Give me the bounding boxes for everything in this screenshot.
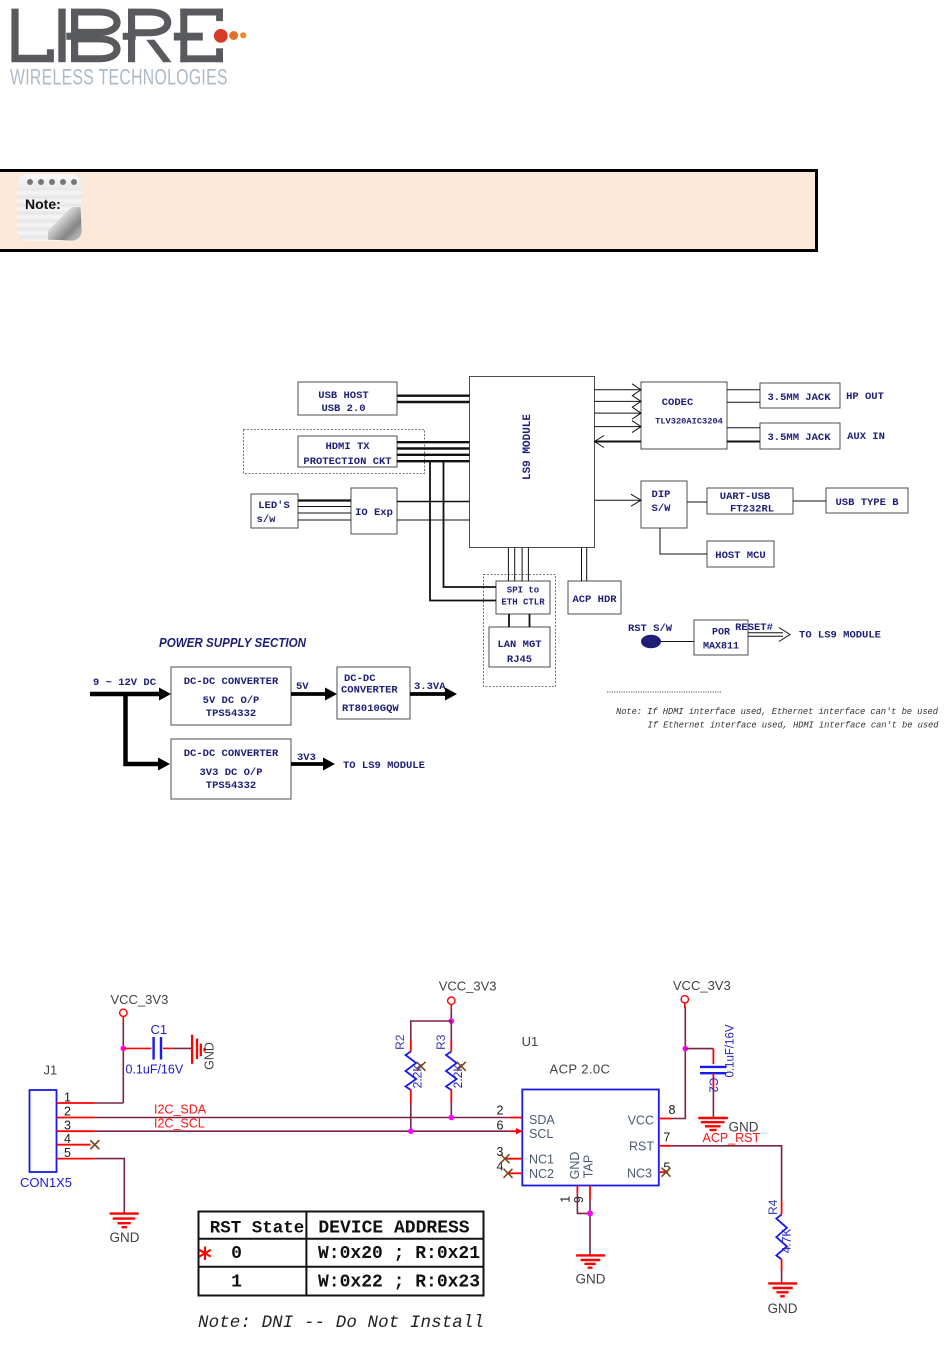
net I2C_SCL wire [95, 1130, 510, 1132]
svg-text:NC2: NC2 [529, 1167, 554, 1181]
svg-text:SCL: SCL [529, 1127, 553, 1141]
svg-text:0: 0 [231, 1244, 242, 1264]
logo LIBRE [0, 0, 260, 95]
svg-text:I2C_SCL: I2C_SCL [154, 1117, 205, 1131]
J1 pin stubs [57, 1103, 95, 1159]
svg-text:3.3VA: 3.3VA [414, 681, 446, 693]
box 3.5MM JACK HP [760, 383, 840, 408]
wire IO Exp to LS9 (2 lines) [397, 501, 470, 503]
note icon notepad [17, 174, 82, 241]
svg-text:RT8010GQW: RT8010GQW [342, 703, 399, 715]
power symbol VCC_3V3 (R2 R3) [439, 979, 497, 1005]
svg-text:VCC_3V3: VCC_3V3 [111, 992, 169, 1007]
svg-text:UART-USB: UART-USB [720, 491, 771, 503]
box USB HOST [298, 382, 397, 415]
resistor R2 [393, 1034, 424, 1103]
svg-text:AUX IN: AUX IN [847, 431, 885, 443]
svg-text:0.1uF/16V: 0.1uF/16V [724, 1024, 736, 1077]
wire C1 to ground [174, 1047, 192, 1049]
table RST State / DEVICE ADDRESS [199, 1212, 484, 1296]
box 3.5MM JACK AUX [760, 423, 840, 449]
wire UART to USB TYPE B [793, 500, 826, 502]
wire VCC pin8 up [671, 1007, 685, 1119]
svg-text:6: 6 [497, 1119, 504, 1133]
box DC-DC 5V [171, 667, 291, 725]
wire to R2 top [411, 1021, 452, 1040]
svg-text:IO Exp: IO Exp [355, 507, 393, 519]
arrow POR RESET# out [748, 628, 790, 642]
svg-text:Note: DNI -- Do Not Install: Note: DNI -- Do Not Install [198, 1313, 484, 1333]
wire R2 bottom to SCL [410, 1103, 412, 1131]
wire R4 to ground [781, 1271, 783, 1283]
svg-text:7: 7 [663, 1131, 670, 1145]
node junction R3-SDA [449, 1115, 455, 1121]
svg-text:LAN MGT: LAN MGT [497, 639, 541, 651]
dashed box ethernet [484, 575, 556, 687]
logo letter B [71, 9, 78, 63]
svg-text:0.1uF/16V: 0.1uF/16V [126, 1063, 184, 1077]
pin 3 NC1 stub [505, 1158, 522, 1160]
pin 8 VCC stub [659, 1118, 671, 1120]
resistor R3 [434, 1034, 465, 1103]
wire R3 bottom to SDA [450, 1103, 452, 1118]
svg-text:5V DC O/P: 5V DC O/P [203, 695, 260, 707]
box LS9 MODULE [470, 377, 595, 548]
svg-text:3.5MM JACK: 3.5MM JACK [767, 392, 831, 404]
box HDMI TX PROTECTION CKT [298, 436, 397, 467]
node junction C2 tap [683, 1046, 689, 1052]
svg-text:RESET#: RESET# [735, 622, 773, 634]
svg-text:1: 1 [559, 1196, 573, 1203]
svg-text:GND: GND [203, 1042, 217, 1070]
svg-text:PROTECTION CKT: PROTECTION CKT [303, 456, 391, 468]
svg-text:DC-DC CONVERTER: DC-DC CONVERTER [184, 676, 279, 688]
box ACP HDR [568, 581, 621, 614]
wire CODEC to jack HP (2 lines) [727, 390, 760, 402]
svg-text:C1: C1 [151, 1022, 168, 1037]
power symbol VCC_3V3 (U1) [673, 978, 731, 1008]
svg-text:8: 8 [669, 1103, 676, 1117]
svg-text:TO LS9 MODULE: TO LS9 MODULE [799, 630, 881, 642]
box POR MAX811 [694, 620, 748, 655]
net ACP_RST wire to R4 [671, 1146, 781, 1201]
no-connect X pin4 [504, 1169, 513, 1178]
wire DIP to UART [687, 501, 707, 503]
svg-text:TPS54332: TPS54332 [206, 780, 256, 792]
svg-text:2: 2 [64, 1104, 71, 1118]
capacitor C1 [123, 1022, 184, 1077]
arrow RT8010 to 3.3VA [410, 692, 446, 696]
ground (J1) [110, 1214, 139, 1228]
DNI X on R3 value [457, 1062, 466, 1071]
svg-text:NC3: NC3 [627, 1167, 652, 1181]
wire CODEC to LS9 return line with arrowhead [595, 441, 642, 443]
wire LS9 to ACP HDR 2 stubs [582, 548, 587, 582]
svg-text:2: 2 [497, 1104, 504, 1118]
wire VCC down to junction [450, 1004, 452, 1021]
svg-text:9 ~ 12V DC: 9 ~ 12V DC [93, 677, 157, 689]
box CODEC [641, 382, 727, 449]
svg-text:5V: 5V [296, 681, 309, 693]
J1 pin numbers [64, 1091, 71, 1161]
svg-text:W:0x22 ; R:0x23: W:0x22 ; R:0x23 [318, 1273, 480, 1293]
label USB HOST [257, 390, 900, 666]
box USB TYPE B [826, 488, 908, 513]
table asterisk [199, 1247, 211, 1261]
svg-text:If Ethernet interface used, HD: If Ethernet interface used, HDMI interfa… [648, 721, 940, 731]
svg-text:NC1: NC1 [529, 1153, 554, 1167]
svg-text:9: 9 [572, 1196, 586, 1203]
box UART-USB FT232RL [707, 488, 793, 514]
DNI X on R2 value [417, 1062, 426, 1071]
svg-text:MAX811: MAX811 [703, 642, 739, 653]
svg-text:GND: GND [110, 1230, 140, 1245]
svg-text:TAP: TAP [582, 1155, 596, 1178]
box LED'S s/w [251, 494, 298, 528]
svg-text:POR: POR [712, 628, 730, 639]
svg-text:ACP 2.0C: ACP 2.0C [550, 1062, 611, 1077]
pin 9 TAP stub [589, 1186, 591, 1200]
box DIP S/W [641, 481, 687, 528]
ground sideways (C1) [192, 1035, 205, 1064]
wire VCC_3V3 down to pin1 [122, 1017, 124, 1104]
svg-text:3: 3 [64, 1118, 71, 1132]
arrow 3V3 box to LS9 [291, 762, 324, 766]
svg-text:W:0x20 ; R:0x21: W:0x20 ; R:0x21 [318, 1244, 480, 1264]
svg-text:3V3: 3V3 [297, 752, 316, 764]
wire HDMI TX to LS9 (4 lines) [397, 442, 470, 461]
ground (R4) [768, 1283, 797, 1296]
arrow 5V box to RT8010 [291, 692, 326, 696]
svg-text:GND: GND [576, 1272, 606, 1287]
wire HDMI drop B to SPI [444, 461, 497, 587]
svg-text:RJ45: RJ45 [507, 654, 532, 666]
svg-text:TO LS9 MODULE: TO LS9 MODULE [343, 760, 425, 772]
node junction R2-SCL [408, 1128, 414, 1134]
svg-text:3.5MM JACK: 3.5MM JACK [767, 432, 831, 444]
svg-text:FT232RL: FT232RL [730, 504, 774, 516]
logo letter I [58, 9, 65, 63]
svg-text:USB 2.0: USB 2.0 [321, 403, 365, 415]
svg-text:C2: C2 [707, 1078, 719, 1093]
wire HDMI drop A to SPI [430, 461, 496, 600]
box SPI to ETH CTLR [496, 581, 550, 614]
svg-text:HOST MCU: HOST MCU [715, 550, 765, 562]
box DC-DC 3V3 [171, 739, 291, 799]
wire RST switch to POR [661, 641, 694, 643]
node junction GND tap [587, 1210, 593, 1216]
svg-text:R3: R3 [434, 1034, 448, 1050]
svg-text:POWER SUPPLY SECTION: POWER SUPPLY SECTION [159, 635, 307, 650]
resistor R4 [766, 1199, 793, 1270]
box HOST MCU [707, 541, 774, 567]
svg-text:TPS54332: TPS54332 [206, 708, 256, 720]
svg-text:DEVICE ADDRESS: DEVICE ADDRESS [318, 1219, 469, 1239]
ground (U1) [576, 1255, 605, 1267]
svg-text:1: 1 [231, 1273, 242, 1293]
box DC-DC RT8010 [337, 667, 410, 719]
op-amp U1 ACP 2.0C chip [522, 1034, 659, 1186]
svg-text:DIP: DIP [652, 489, 671, 501]
box IO Exp [351, 488, 397, 534]
svg-text:CONVERTER: CONVERTER [341, 685, 398, 697]
pin 4 NC2 stub [508, 1172, 522, 1174]
svg-text:USB HOST: USB HOST [318, 390, 368, 402]
svg-text:GND: GND [768, 1301, 798, 1316]
capacitor C2 [685, 1024, 736, 1092]
svg-text:ETH CTLR: ETH CTLR [501, 598, 545, 608]
box LAN MGT RJ45 [489, 627, 550, 667]
svg-text:SDA: SDA [529, 1113, 555, 1127]
label DC-DC CONVERTER 5V [184, 673, 400, 792]
RST switch ellipse [641, 635, 661, 648]
wire pin5 to ground [95, 1159, 125, 1213]
wire to R3 top [450, 1021, 452, 1040]
svg-text:CON1X5: CON1X5 [20, 1175, 72, 1190]
wire LED'S to IO Exp (4 lines) [298, 499, 351, 501]
svg-text:LS9 MODULE: LS9 MODULE [522, 414, 534, 480]
no-connect X pin5 [662, 1168, 671, 1177]
block diagram [0, 370, 947, 800]
dotted separator [607, 691, 721, 693]
svg-text:4.7K: 4.7K [779, 1229, 793, 1254]
note box [0, 169, 818, 252]
pin 2 SDA stub [510, 1117, 523, 1119]
logo orange dot 2 [229, 31, 238, 40]
svg-text:HDMI TX: HDMI TX [325, 441, 370, 453]
U1 pin numbers [497, 1103, 676, 1203]
power symbol VCC_3V3 (J1 area) [111, 992, 169, 1017]
wire LS9 to SPI 4 stubs [508, 548, 528, 582]
svg-text:J1: J1 [44, 1063, 58, 1078]
wire CODEC to jack AUX (2 lines) [727, 427, 760, 429]
pin 6 SCL stub with arrow [510, 1130, 523, 1132]
svg-text:R2: R2 [393, 1034, 407, 1050]
svg-text:3V3 DC O/P: 3V3 DC O/P [199, 767, 262, 779]
node junction C1 tap [121, 1046, 127, 1052]
wire DIP to HOST MCU [660, 528, 707, 554]
no-connect X pin3 [501, 1154, 510, 1163]
wire pin1 to VCC [95, 1102, 124, 1104]
svg-text:DC-DC CONVERTER: DC-DC CONVERTER [184, 748, 279, 760]
logo red dot [214, 29, 228, 43]
node junction R2/R3 top [449, 1018, 455, 1024]
svg-text:GND: GND [568, 1152, 582, 1180]
svg-text:ACP HDR: ACP HDR [572, 594, 617, 606]
logo orange dot 3 [240, 32, 246, 38]
wire USB HOST to LS9 (2 lines) [397, 396, 470, 402]
dashed box HDMI protection [244, 430, 425, 474]
logo letter R [128, 9, 135, 63]
svg-text:SPI to: SPI to [507, 586, 539, 596]
wire LS9 to DIP with arrowhead [595, 499, 642, 501]
svg-text:Note: If HDMI interface used,: Note: If HDMI interface used, Ethernet i… [616, 707, 939, 717]
svg-text:R4: R4 [766, 1199, 780, 1215]
svg-text:RST State: RST State [210, 1219, 305, 1239]
svg-text:VCC: VCC [628, 1114, 654, 1128]
pin 1 GND stub [576, 1186, 578, 1194]
svg-text:U1: U1 [522, 1034, 539, 1049]
svg-text:WIRELESS TECHNOLOGIES: WIRELESS TECHNOLOGIES [10, 65, 228, 90]
svg-text:CODEC: CODEC [662, 397, 694, 409]
svg-text:VCC_3V3: VCC_3V3 [673, 978, 731, 993]
wire SPI to LAN 2 stubs [509, 614, 530, 627]
svg-text:DC-DC: DC-DC [344, 673, 376, 685]
svg-text:ACP_RST: ACP_RST [703, 1131, 761, 1145]
svg-text:S/W: S/W [652, 503, 672, 515]
thick wire branch down to 3V3 [126, 694, 160, 764]
svg-text:RST: RST [629, 1140, 654, 1154]
thick arrow input to 5V converter [90, 688, 457, 771]
svg-text:HP OUT: HP OUT [846, 391, 884, 403]
svg-text:I2C_SDA: I2C_SDA [154, 1103, 207, 1117]
svg-text:RST S/W: RST S/W [628, 623, 673, 635]
ground (C2) [698, 1118, 728, 1130]
wire C2 to ground [712, 1090, 714, 1117]
svg-text:USB TYPE B: USB TYPE B [835, 497, 899, 509]
svg-text:LED'S: LED'S [258, 500, 290, 512]
no-connect X pin4 [90, 1140, 99, 1149]
pin 5 NC3 stub [659, 1171, 668, 1173]
net I2C_SDA wire [95, 1117, 510, 1119]
svg-text:VCC_3V3: VCC_3V3 [439, 979, 497, 994]
logo letter L [11, 9, 54, 63]
wire GND TAP join [577, 1193, 590, 1255]
U1 pin names [529, 1113, 654, 1181]
pin 7 RST stub [659, 1145, 672, 1147]
svg-text:s/w: s/w [257, 514, 277, 526]
logo letter E with dots [180, 9, 187, 63]
wire LS9 to CODEC 4 lines with arrowheads [595, 390, 642, 427]
connector J1 CON1X5 [20, 1063, 72, 1191]
svg-text:TLV320AIC3204: TLV320AIC3204 [655, 417, 723, 427]
